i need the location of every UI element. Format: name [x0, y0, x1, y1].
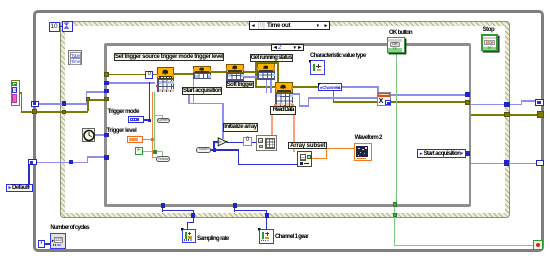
wire: blue gear V1 [234, 207, 235, 212]
wire: violet U left leg [188, 95, 190, 105]
junction: event bottom green [393, 213, 398, 218]
wire: violet jog to while tunnel [521, 100, 537, 102]
junction: hatch sq olive [504, 112, 510, 118]
tunnel: case left olive 2 [104, 97, 109, 101]
conditional terminal (stop sign) [533, 240, 543, 250]
wire: blue sampling V1 [162, 207, 163, 212]
label initialize array [223, 123, 259, 131]
junction: olive sq event left [62, 110, 67, 114]
tunnel: case left default blue [104, 155, 109, 160]
wire: violet VI2 down V [193, 79, 195, 105]
wire: olive to case right tunnel [333, 101, 466, 103]
wire: blue 10 to hourglass [60, 26, 64, 27]
wire: violet default-left main H [38, 103, 87, 105]
wire: blue trigger-mode H [143, 119, 150, 120]
wire: orange trigger-level H [143, 139, 152, 141]
wire: violet U2 down V [299, 93, 301, 106]
channel 1 gear node [259, 229, 274, 244]
channel 1 constant [318, 83, 342, 91]
type/time event data node [68, 50, 82, 65]
event structure interior [65, 26, 505, 213]
wire: olive outside case to while tunnel [471, 114, 538, 116]
junction: event bottom blue 1 [191, 213, 195, 217]
wire: blue south triangle H [213, 141, 218, 142]
junction: hatch sq violet 2 [504, 160, 510, 166]
junction: trigger mode dot [148, 119, 151, 122]
tunnel: case left blue 2 [104, 89, 109, 93]
tunnel: while right violet 1 [535, 99, 543, 106]
wire: orange to pill2 H [152, 157, 158, 159]
wait clock icon [82, 128, 95, 142]
wire: green V up to VI1 [154, 92, 155, 152]
wire: blue to array subset H [238, 164, 299, 165]
VI2 start acquisition icon [193, 66, 211, 79]
triangle node [217, 137, 228, 147]
wire: salmon ReadData V1 [271, 107, 273, 140]
characteristic value type label [310, 53, 366, 59]
pill constant 2 [156, 156, 170, 162]
wire: orange trigger V [152, 92, 154, 159]
label array subset [288, 142, 327, 150]
wire: green V to pill2 [162, 151, 163, 157]
wire: violet U bottom [188, 103, 194, 105]
wire: blue sampling V2 [193, 210, 194, 223]
VI3 soft trigger icon [226, 64, 244, 81]
wire: violet VI4 down a [266, 80, 268, 94]
label set trigger source [114, 53, 224, 62]
wire: violet to triangle V [222, 103, 224, 139]
wire: violet X node out to tunnel [391, 94, 466, 96]
wire: green dot H right [154, 151, 163, 152]
junction: blue sq default wire [69, 160, 73, 164]
number of cycles label [50, 225, 89, 231]
junction: case bottom blue 1 [161, 203, 165, 207]
wire: blue south V to triangle [213, 141, 214, 150]
sampling rate node [182, 229, 197, 244]
event selector label [0] Time out [249, 21, 330, 30]
wire: olive wrap right V [277, 62, 279, 87]
event timeout terminal (hourglass) [62, 21, 73, 32]
tunnel: case left olive 1 [104, 72, 109, 77]
wire: olive cluster out H [18, 92, 22, 94]
wire: violet default step V [87, 156, 89, 163]
event structure hatched border [60, 21, 510, 218]
tunnel: default while left [28, 159, 36, 165]
wire: blue default ring V [28, 165, 29, 185]
VI5 read data icon [275, 82, 293, 107]
tunnel: case right startacq [465, 151, 470, 156]
constant 0 (timeout for VI1) [145, 71, 153, 79]
sampling rate label [197, 236, 229, 242]
tunnel: case right violet [465, 92, 470, 97]
wire: olive elbow V up [87, 99, 89, 111]
wire: violet default step H [87, 156, 105, 158]
wire: olive elbow to case tunnel [88, 99, 105, 101]
label start acquisition [182, 87, 222, 95]
wire: olive while to elbow [36, 111, 88, 113]
label get running status [250, 54, 294, 62]
wire: violet VI3 to VI4 cells [244, 76, 258, 78]
wire: blue i to indicator [45, 243, 51, 244]
label waveform 2 [355, 135, 382, 141]
wire: blue trigger-mode V [149, 82, 150, 120]
tunnel: case left clock blue [104, 133, 109, 137]
default ring constant [6, 184, 33, 193]
wire: blue triangle out H [227, 142, 245, 143]
wire: olive ReadData to Channel1 [293, 86, 319, 88]
OK button label [389, 30, 412, 36]
wire: blue sampling H2 [187, 222, 194, 223]
wire: violet start-acq H [193, 103, 224, 105]
stop terminal [481, 34, 499, 51]
constant 0 orange [243, 137, 252, 146]
tunnel: while right violet 2 [536, 160, 544, 167]
case structure interior [107, 46, 469, 205]
wire: violet clock to case tunnel [95, 134, 106, 136]
tunnel: case left blue 1 [104, 81, 109, 86]
wire: violet long to X node [308, 97, 378, 99]
wire: blue 0 to init array [251, 142, 257, 143]
tunnel: case right olive [465, 100, 470, 105]
junction: olive dot elbow [86, 97, 90, 101]
number of cycles indicator [50, 233, 66, 249]
junction: south blue dot [213, 148, 217, 152]
wire: blue gear H1 [234, 210, 268, 211]
iteration terminal i [38, 240, 46, 248]
X scan node [377, 92, 391, 106]
junction: case bottom green [393, 202, 398, 207]
F boolean constant [135, 147, 143, 155]
OK button terminal [387, 37, 406, 53]
junction: case bottom blue 2 [233, 203, 237, 207]
wire: olive wrap left V [255, 62, 257, 87]
wire: orange array subset out H [311, 158, 327, 160]
wire: violet elbow H to case [86, 91, 106, 93]
start acquisition ring constant [417, 149, 466, 157]
cluster terminal outside loop [11, 80, 20, 106]
wire: blue south down V [238, 149, 239, 164]
wire: violet X node drop V [377, 86, 379, 93]
tunnel: violet while left [31, 101, 39, 107]
wire: violet start-acq ring out H [471, 163, 537, 165]
junction: olive tunnel while left [32, 109, 37, 114]
wire: olive wrap top H [255, 62, 279, 64]
wire: olive VI1 to VI2 [174, 73, 194, 75]
wire: green F out H [142, 151, 155, 152]
wire: green H to conditional [394, 245, 533, 246]
stop label [483, 27, 495, 33]
junction: trigger level dot [151, 138, 154, 141]
characteristic value type terminal [310, 60, 326, 75]
wire: olive VI2 to VI3 [211, 71, 227, 73]
wire: olive into while loop [21, 111, 35, 113]
wire: green stub pill1 a [154, 115, 163, 116]
pill constant south [196, 147, 211, 153]
wire: violet ReadData right H [293, 93, 300, 95]
wire: violet VI4 down b [270, 80, 272, 94]
wire: blue south pill H [211, 149, 239, 150]
junction: hatch sq violet [504, 102, 510, 107]
wire: violet U2 up V [308, 97, 310, 107]
trigger mode terminal [128, 116, 144, 123]
wire: olive VI3 to wrap [244, 71, 257, 73]
wire: blue sampling H1 [162, 210, 194, 211]
wire: green OK V inside case [396, 53, 397, 203]
wire: olive 0-const to VI1 [153, 74, 158, 76]
wire: violet case-left to trigger column [108, 82, 155, 84]
pill constant 1 [157, 118, 170, 123]
wire: violet default ring H [37, 162, 88, 164]
wire: blue sampling V3 [187, 222, 188, 230]
waveform 2 terminal [354, 143, 372, 161]
case structure border [104, 43, 471, 207]
wire: olive wrap to ReadData [255, 86, 276, 88]
tunnel: while right olive [537, 111, 544, 118]
channel 1 gear label [275, 234, 308, 240]
constant 10 [49, 22, 60, 33]
wire: blue gear V2 [266, 210, 267, 230]
label read data [270, 106, 296, 114]
VI4 get running status icon [257, 63, 275, 79]
wire: green stub pill1 b [162, 115, 163, 119]
wire: violet U2 bottom H [299, 105, 309, 107]
wire: violet outside case H [471, 104, 522, 106]
junction: green dot [153, 150, 156, 153]
wire: violet elbow V [86, 91, 88, 104]
wire: olive cluster V down [21, 92, 23, 113]
wire: olive main case-left to 0 const [108, 74, 146, 76]
trigger level label [107, 128, 137, 134]
trigger mode label [108, 109, 139, 115]
VI1 set trigger icon [157, 67, 175, 92]
wire: orange waveform V [326, 148, 328, 159]
case selector label 2 [271, 44, 304, 52]
label soft trigger [226, 81, 255, 89]
wire: green V case to event border [394, 207, 395, 246]
initialize array function icon [256, 135, 277, 151]
wire: violet outside jog V [521, 100, 523, 105]
junction: event bottom blue 2 [265, 213, 269, 217]
array subset function icon [297, 151, 311, 167]
junction: violet sq event left [62, 101, 67, 105]
trigger level terminal [127, 136, 143, 143]
wire: violet Channel1 to X node [342, 86, 379, 88]
wire: orange waveform H [326, 148, 355, 150]
wire: salmon ReadData V2 [293, 107, 295, 152]
wire: olive V behind Channel1 [333, 86, 335, 101]
